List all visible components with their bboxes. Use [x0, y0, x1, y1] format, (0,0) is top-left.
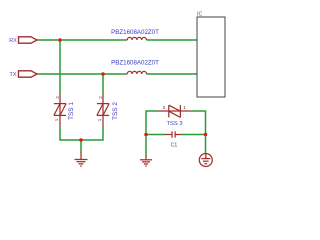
wire ground bus horizontal	[60, 139, 103, 141]
svg-text:2: 2	[55, 96, 60, 99]
svg-text:PBZ1608A02Z0T: PBZ1608A02Z0T	[111, 29, 159, 36]
junction ground bus	[79, 138, 83, 142]
svg-text:RX: RX	[9, 38, 17, 44]
wire vertical TX to TSS2	[102, 74, 104, 94]
wire TX net after bead to IC	[147, 73, 198, 75]
svg-text:TX: TX	[10, 72, 17, 78]
svg-text:1: 1	[183, 105, 186, 110]
wire ground stem	[80, 140, 82, 153]
wire TX net horizontal	[37, 73, 126, 75]
wire cap row right	[181, 134, 206, 136]
svg-text:C1: C1	[171, 143, 178, 149]
ferrite bead L1	[126, 37, 147, 40]
capacitor C1	[165, 131, 181, 137]
wire TSS2 bottom to ground bus	[102, 127, 104, 141]
junction RX vertical	[58, 38, 62, 42]
wire cap row left	[146, 134, 165, 136]
wire RX net after bead to IC	[147, 39, 198, 41]
wire left rail	[145, 110, 147, 156]
wire RX net horizontal	[37, 39, 126, 41]
IC U1 rectangle	[197, 17, 225, 97]
IC pin stub TX	[196, 73, 198, 75]
svg-text:1: 1	[54, 118, 59, 121]
junction right rail cap	[204, 133, 208, 137]
ferrite bead L2	[126, 71, 147, 74]
TVS TSS2	[97, 94, 109, 127]
port RX	[19, 37, 38, 43]
TVS TSS1	[54, 94, 66, 127]
svg-text:2: 2	[163, 105, 166, 110]
svg-text:PBZ1608A02Z0T: PBZ1608A02Z0T	[111, 59, 159, 66]
svg-text:IC: IC	[197, 12, 202, 18]
earth ground symbol GND3 circled	[199, 154, 212, 167]
wire TSS1 bottom to ground bus	[59, 127, 61, 141]
junction TX vertical	[101, 72, 105, 76]
svg-text:TSS 2: TSS 2	[112, 102, 119, 120]
junction left rail cap	[144, 133, 148, 137]
wire TSS3 row left	[146, 110, 158, 112]
wire right rail	[205, 110, 207, 153]
svg-text:2: 2	[98, 96, 103, 99]
IC pin stub RX	[196, 39, 198, 41]
svg-text:1: 1	[97, 118, 102, 121]
port TX	[19, 71, 38, 77]
ground symbol GND1	[75, 152, 88, 166]
svg-text:TSS 1: TSS 1	[68, 102, 75, 120]
TVS TSS3	[158, 105, 191, 117]
ground symbol GND2	[140, 156, 152, 167]
wire TSS3 row right	[191, 110, 206, 112]
wire vertical RX to TSS1	[59, 40, 61, 94]
svg-text:TSS 3: TSS 3	[166, 121, 182, 127]
